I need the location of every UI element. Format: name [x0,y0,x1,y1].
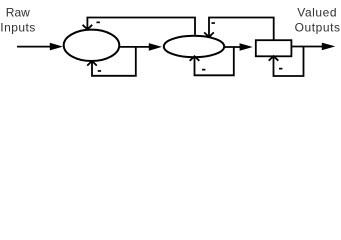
svg-text:Outputs: Outputs [295,20,341,34]
minus label loop1 top [97,22,100,24]
svg-text:Raw: Raw [6,6,30,20]
node stage-2 ellipse [164,36,224,58]
wire stage2 to box arrow [224,46,242,48]
svg-text:Valued: Valued [297,6,337,20]
wire feedback loop stage2 top to stage1 top (inhibitory) [83,18,195,35]
minus label loop2 top [212,22,215,24]
minus label loop3 bottom [279,68,282,70]
wire feedback loop box top to stage2 top (inhibitory) [204,18,274,40]
node stage-1 ellipse [64,30,120,61]
wire self feedback loop stage1 bottom [87,47,136,76]
wire self feedback loop stage2 bottom [190,47,234,75]
wire self feedback loop box bottom [269,47,304,76]
wire stage1 to stage2 arrow [119,46,150,48]
label Raw Inputs [0,6,35,35]
wire output arrow [292,46,323,48]
node stage-3 box [256,40,292,56]
label Valued Outputs [295,6,341,35]
wire input arrow into stage 1 [17,46,51,48]
svg-text:Inputs: Inputs [0,20,35,34]
minus label loop2 bottom [202,69,205,71]
minus label loop1 bottom [98,70,101,72]
